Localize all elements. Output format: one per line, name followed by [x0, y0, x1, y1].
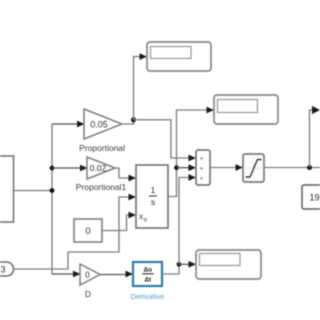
gain D [80, 264, 100, 299]
svg-text:3: 3 [0, 265, 5, 275]
node D junction dot [177, 262, 182, 267]
wire node F up to right edge block [310, 110, 314, 168]
svg-text:0.02: 0.02 [90, 163, 107, 173]
sum block [196, 150, 210, 185]
svg-text:0: 0 [85, 271, 90, 280]
gain Proportional1 0.02 [76, 157, 127, 192]
wire Proportional1 output to integrator input 1 [115, 168, 129, 178]
node E junction dot [174, 165, 179, 170]
Derivative block (selected) [131, 262, 165, 301]
wire node C up to Display1 [134, 57, 141, 120]
svg-text:D: D [85, 289, 91, 299]
wire Proportional output to node C [122, 120, 134, 124]
svg-text:1: 1 [151, 185, 156, 195]
svg-text:Δt: Δt [144, 277, 152, 284]
wire sum output to saturation [210, 167, 236, 169]
wire to Proportional1 gain [52, 167, 81, 169]
svg-text:s: s [151, 197, 155, 207]
node A junction dot (error to Proportional1) [50, 166, 55, 171]
wire plant output to error node column [14, 190, 53, 192]
svg-text:190: 190 [310, 193, 320, 203]
wire constant 0 to integrator x0 input [102, 215, 129, 231]
wire to D gain [52, 273, 74, 275]
node F junction dot [307, 165, 312, 170]
saturation block [243, 154, 264, 182]
wire Derivative output to node D [162, 264, 179, 274]
wire inport 3 to integrator input 2 [14, 197, 130, 269]
svg-text:Proportional1: Proportional1 [76, 182, 127, 192]
svg-text:+: + [200, 167, 204, 173]
svg-text:x: x [139, 212, 143, 221]
integrator block 1/s [136, 165, 168, 228]
display2 block [214, 95, 278, 124]
inport 3 [0, 262, 14, 276]
wire integrator output to Display2 [168, 110, 207, 197]
display3 block [196, 250, 261, 279]
plant block [0, 156, 14, 222]
node C junction dot [131, 117, 136, 122]
constant block 19 (cut at right edge) [302, 185, 320, 209]
svg-text:Proportional: Proportional [79, 143, 125, 153]
svg-text:0.05: 0.05 [90, 120, 108, 130]
wire D gain to Derivative [100, 274, 126, 276]
svg-text:+: + [200, 157, 204, 163]
node B junction dot (plant output joins column) [50, 188, 55, 193]
wire to Proportional gain [52, 123, 78, 125]
wire node D to Display3 [179, 263, 189, 265]
wire node C to sum input 1 [134, 120, 190, 158]
wire saturation output to right edge [264, 167, 320, 169]
svg-text:+: + [200, 177, 204, 183]
gain Proportional 0.05 [79, 109, 125, 153]
wire node E to sum input 2 [177, 167, 190, 169]
display1 block [147, 42, 211, 71]
wire error column vertical [51, 124, 53, 274]
svg-text:0: 0 [85, 226, 90, 237]
constant block 0 [74, 219, 102, 242]
wire node D up to sum input 3 [179, 178, 189, 265]
svg-text:Derivative: Derivative [131, 292, 165, 301]
svg-text:Δu: Δu [144, 267, 153, 274]
